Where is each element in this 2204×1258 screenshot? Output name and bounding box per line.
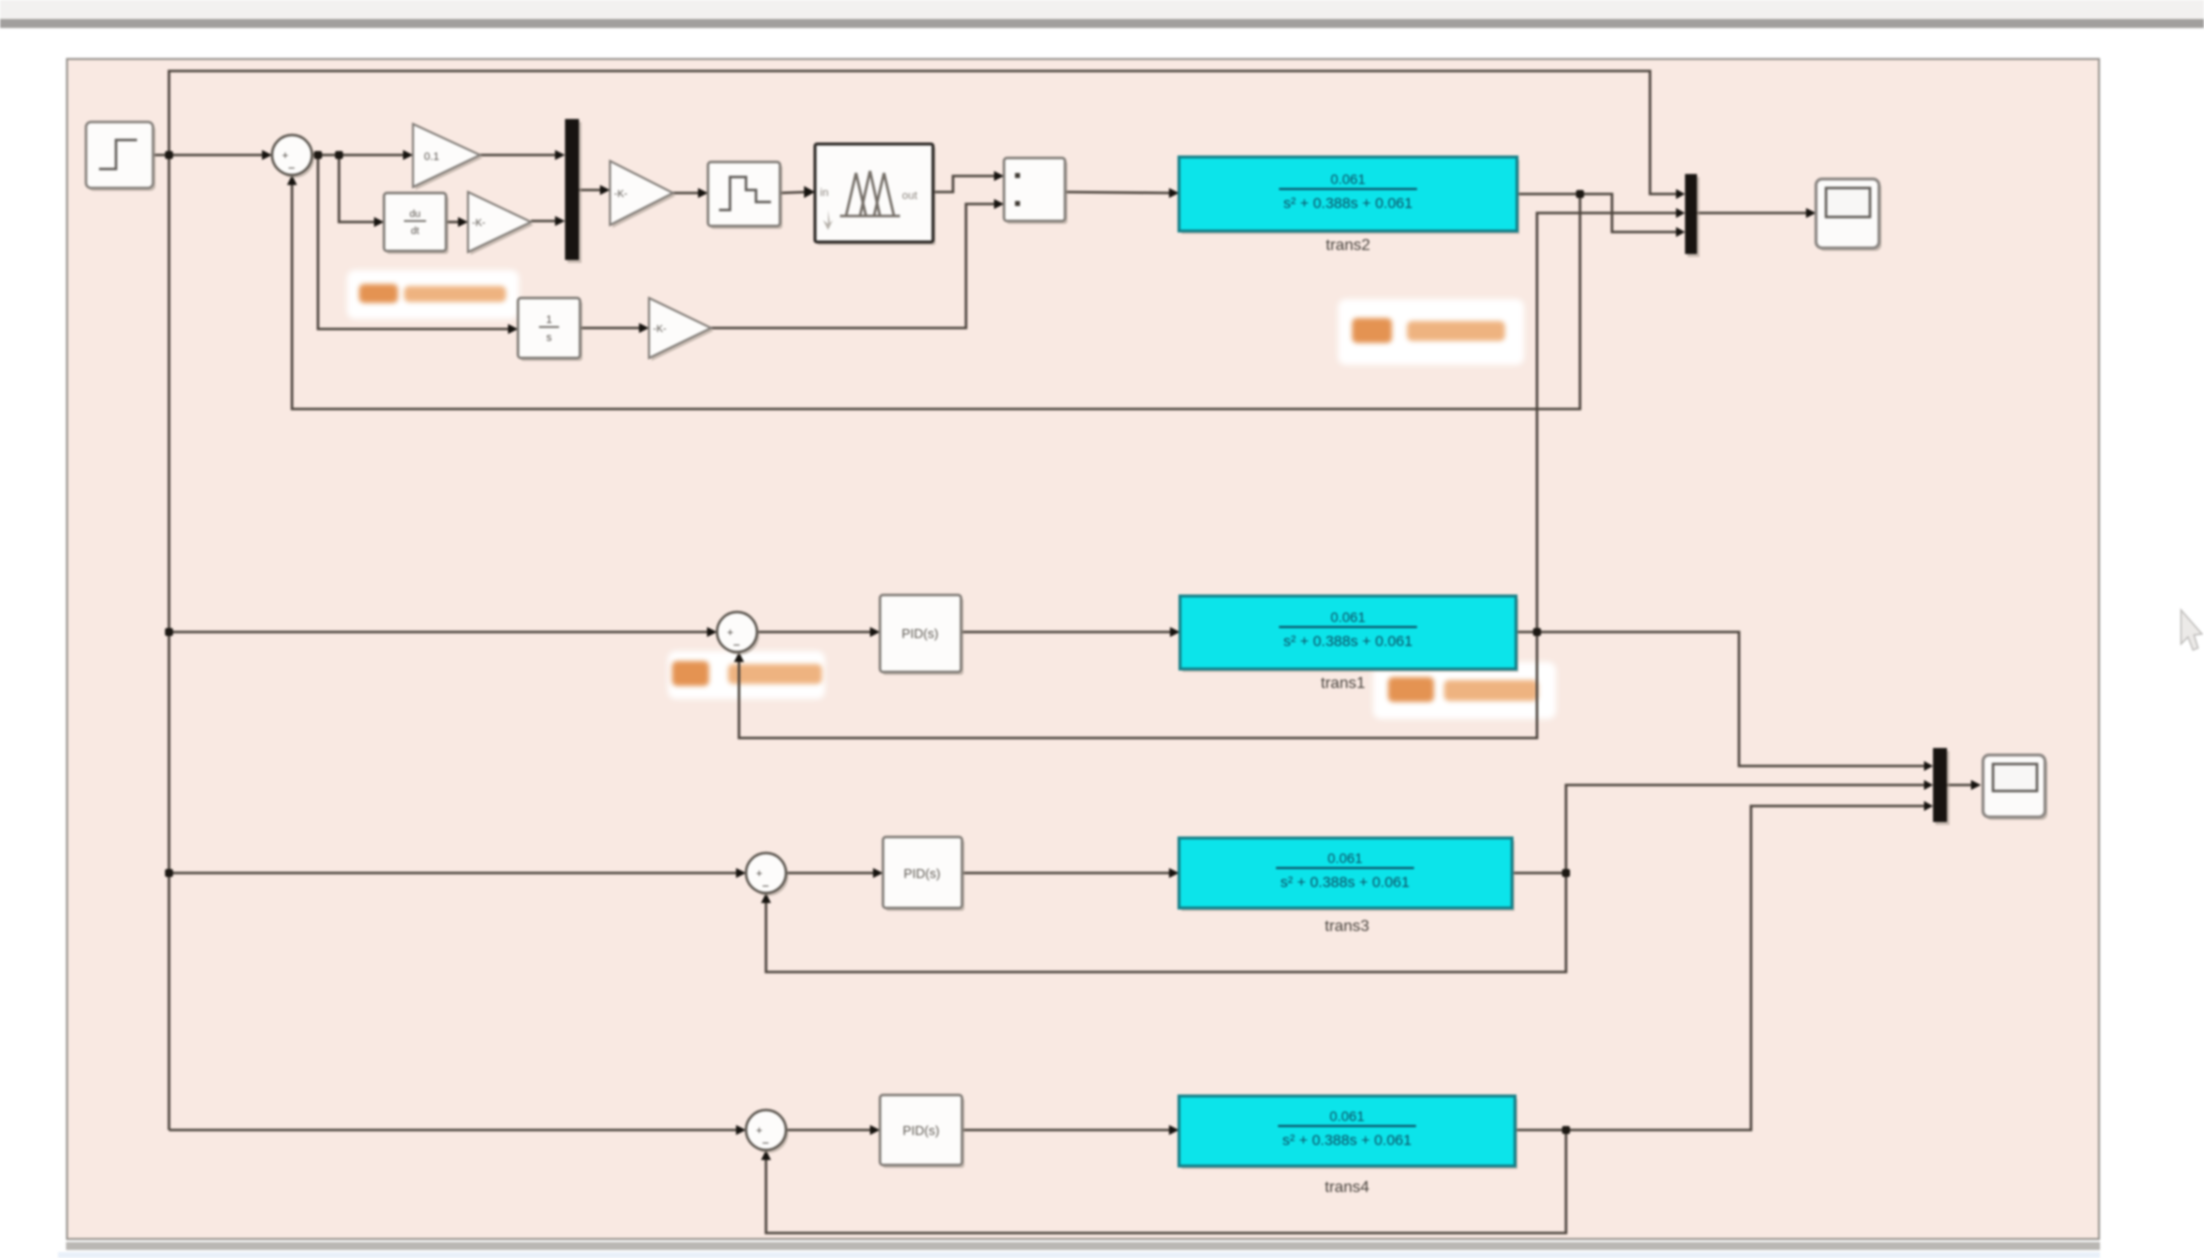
svg-text:−: − <box>762 879 769 893</box>
svg-text:s: s <box>546 332 552 344</box>
svg-text:PID(s): PID(s) <box>903 1123 940 1138</box>
wire sum1 output to gain G1 <box>312 154 405 157</box>
svg-text:s² + 0.388s + 0.061: s² + 0.388s + 0.061 <box>1280 874 1409 891</box>
svg-text:0.1: 0.1 <box>424 151 439 163</box>
watermark W2 word1 <box>1352 318 1392 343</box>
arrowhead into sum1 <box>262 150 272 160</box>
gain block G3 -K- <box>610 161 676 228</box>
wire step to sum1 <box>153 154 264 157</box>
arrowhead into divide input2 <box>994 199 1004 209</box>
svg-text:0.061: 0.061 <box>1330 171 1365 187</box>
watermark W3 word2 <box>728 664 822 684</box>
arrowhead into sum4 <box>736 1125 746 1135</box>
wire divide to trans2 <box>1065 192 1171 193</box>
arrowhead into quantizer <box>698 188 708 198</box>
arrowhead into trans3 <box>1169 868 1179 878</box>
arrowhead into mux1 input2 <box>555 216 565 226</box>
PID controller block PID4 <box>880 1095 965 1168</box>
watermark W4 box <box>1373 662 1556 719</box>
arrowhead into mux3 input3 <box>1924 801 1933 811</box>
wire mux2 output to scope1 <box>1697 212 1808 215</box>
arrowhead into mux3 input2 <box>1924 780 1933 790</box>
svg-text:s² + 0.388s + 0.061: s² + 0.388s + 0.061 <box>1283 633 1412 650</box>
svg-text:−: − <box>288 161 295 175</box>
sum block sum4 <box>746 1110 789 1153</box>
wire trans1 output riser to mux2 input2 <box>1537 213 1679 632</box>
window chrome top bar <box>0 0 2204 19</box>
wire trans1 output to mux3 input1 <box>1516 632 1925 766</box>
mouse cursor <box>2181 610 2202 650</box>
mux block mux1 <box>568 122 582 263</box>
wire left rail to sum3 <box>169 872 738 875</box>
junction node integrator branch <box>314 151 322 159</box>
watermark W4 word1 <box>1388 677 1434 702</box>
arrowhead into trans4 <box>1169 1125 1179 1135</box>
arrowhead into trans2 <box>1169 188 1179 198</box>
svg-text:−: − <box>733 638 740 652</box>
derivative block du/dt <box>384 193 449 254</box>
transfer function block trans3 <box>1179 838 1515 911</box>
wire PID3 to trans3 <box>962 872 1171 875</box>
arrowhead up into sum1 bottom <box>287 175 297 185</box>
wire mux1 output to gain G3 <box>579 189 602 192</box>
gain block G2 -K- <box>468 192 534 255</box>
svg-text:trans3: trans3 <box>1325 918 1370 935</box>
integrator block 1/s <box>518 298 583 361</box>
arrowhead into gain G2 <box>458 217 468 227</box>
svg-text:−: − <box>762 1136 769 1150</box>
wire sum2 to PID2 <box>757 631 872 634</box>
junction node left rail row2 <box>165 628 173 636</box>
wire branch to integrator <box>318 155 510 329</box>
wire trans4 output riser to mux3 input3 <box>1515 806 1925 1130</box>
arrowhead up into sum3 bottom <box>761 893 771 903</box>
arrowhead into gain G1 <box>403 150 413 160</box>
arrowhead into mux2 input2 <box>1676 208 1685 218</box>
watermark W1 box <box>347 270 519 319</box>
wire feedback loop2 trans1 to sum2 <box>739 632 1537 738</box>
wire left rail to sum2 <box>169 631 709 634</box>
svg-text:0.061: 0.061 <box>1330 609 1365 625</box>
mux block mux3 <box>1936 751 1950 825</box>
wire sum4 to PID4 <box>786 1129 872 1132</box>
arrowhead into integrator <box>508 324 518 334</box>
wire step branch down left rail <box>168 155 171 1130</box>
arrowhead into trans1 <box>1170 627 1180 637</box>
divide block <box>1004 158 1068 224</box>
watermark W3 box <box>668 651 825 699</box>
gain block G1 value 0.1 <box>413 124 483 190</box>
wire feedback loop4 trans4 to sum4 <box>766 1130 1566 1233</box>
svg-text:in: in <box>820 187 829 199</box>
wire gain G1 to mux1 input1 <box>480 154 557 157</box>
arrowhead into mux2 input3 <box>1676 227 1685 237</box>
junction node trans4 output <box>1562 1126 1570 1134</box>
PID controller block PID2 <box>880 595 964 675</box>
arrowhead into fuzzy controller <box>804 186 815 198</box>
junction node derivative branch <box>335 151 343 159</box>
junction node trans1 output <box>1533 628 1541 636</box>
wire quantizer to fuzzy controller <box>780 192 807 193</box>
bottom pale blue strip <box>58 1252 2100 1258</box>
svg-text:0.061: 0.061 <box>1329 1108 1364 1124</box>
junction node step branch <box>165 151 173 159</box>
arrowhead into mux2 input1 <box>1676 189 1685 199</box>
arrowhead into mux3 input1 <box>1924 761 1933 771</box>
gain block G4 -K- <box>649 298 714 361</box>
svg-text:s² + 0.388s + 0.061: s² + 0.388s + 0.061 <box>1282 1132 1411 1149</box>
watermark W4 word2 <box>1444 680 1538 701</box>
transfer function block trans2 <box>1179 157 1520 234</box>
quantizer block <box>708 162 783 229</box>
arrowhead into gain G3 <box>600 185 610 195</box>
arrowhead up into sum2 bottom <box>734 652 744 662</box>
sum block sum2 <box>717 612 760 655</box>
junction node left rail row3 <box>165 869 173 877</box>
watermark W3 word1 <box>672 661 709 686</box>
window chrome white strip <box>0 28 2204 58</box>
svg-text:0.061: 0.061 <box>1327 850 1362 866</box>
arrowhead into gain G4 <box>639 323 649 333</box>
wire feedback loop3 trans3 to sum3 <box>766 873 1566 972</box>
arrowhead into scope1 <box>1806 208 1816 218</box>
wire gain G2 to mux1 input2 <box>531 220 557 223</box>
scope block scope1 <box>1816 179 1882 251</box>
svg-text:trans1: trans1 <box>1321 675 1366 692</box>
arrowhead into mux1 input1 <box>555 150 565 160</box>
scope block scope2 <box>1983 755 2048 820</box>
transfer function block trans4 <box>1179 1096 1518 1169</box>
svg-text:-K-: -K- <box>614 189 627 200</box>
wire feedback loop1 trans2 to sum1 <box>292 183 1580 409</box>
wire step branch up over top to mux2 input1 <box>169 71 1679 194</box>
svg-text:trans4: trans4 <box>1325 1179 1370 1196</box>
svg-text:1: 1 <box>546 314 552 326</box>
watermark W2 box <box>1338 299 1524 365</box>
window chrome divider line <box>0 19 2204 29</box>
PID controller block PID3 <box>883 837 965 911</box>
arrowhead into derivative <box>374 217 384 227</box>
svg-text:-K-: -K- <box>472 218 485 229</box>
mux block mux2 <box>1688 177 1700 257</box>
wire trans2 output to mux2 input3 <box>1517 194 1679 232</box>
arrowhead into PID4 <box>870 1125 880 1135</box>
arrowhead up into sum4 bottom <box>761 1150 771 1160</box>
transfer function block trans1 <box>1180 596 1519 672</box>
svg-text:du: du <box>409 209 420 220</box>
wire left rail to sum4 <box>169 1129 738 1132</box>
svg-text:PID(s): PID(s) <box>904 866 941 881</box>
arrowhead into PID2 <box>870 627 880 637</box>
arrowhead into scope2 <box>1971 780 1981 790</box>
wire PID4 to trans4 <box>962 1129 1171 1132</box>
wire trans3 output riser to mux3 input2 <box>1512 785 1925 873</box>
canvas bottom shadow <box>66 1242 2100 1250</box>
junction node trans2 output <box>1576 190 1584 198</box>
wire gain G3 to quantizer <box>673 192 700 195</box>
fuzzy logic controller block <box>815 144 936 245</box>
watermark W1 word1 <box>359 284 398 303</box>
wire mux3 output to scope2 <box>1947 784 1973 787</box>
arrowhead into sum3 <box>736 868 746 878</box>
wire integrator to gain G4 <box>580 327 641 330</box>
svg-text:trans2: trans2 <box>1326 237 1371 254</box>
junction node trans3 output <box>1562 869 1570 877</box>
svg-text:s² + 0.388s + 0.061: s² + 0.388s + 0.061 <box>1283 195 1412 212</box>
arrowhead into divide input1 <box>994 171 1004 181</box>
svg-text:-K-: -K- <box>653 324 666 335</box>
svg-text:dt: dt <box>411 226 420 237</box>
watermark W2 word2 <box>1407 321 1505 341</box>
wire fuzzy controller to divide input1 <box>933 176 996 192</box>
wire PID2 to trans1 <box>961 631 1172 634</box>
step source block <box>86 122 156 191</box>
watermark W1 word2 <box>404 286 506 302</box>
arrowhead into PID3 <box>873 868 883 878</box>
svg-text:out: out <box>902 190 917 202</box>
wire gain G4 to divide input2 <box>711 204 996 328</box>
wire derivative to gain G2 <box>446 221 460 224</box>
wire sum3 to PID3 <box>786 872 875 875</box>
sum block sum1 <box>272 135 315 178</box>
sum block sum3 <box>746 853 789 896</box>
wire branch to derivative <box>339 155 376 222</box>
svg-text:PID(s): PID(s) <box>902 626 939 641</box>
arrowhead into sum2 <box>707 627 717 637</box>
